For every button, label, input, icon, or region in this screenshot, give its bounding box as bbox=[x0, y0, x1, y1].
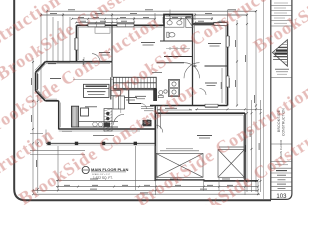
master bath shower bbox=[186, 17, 193, 28]
garage top wall bbox=[155, 112, 245, 114]
powder room fixtures bbox=[158, 90, 167, 98]
stair hall left wall bbox=[110, 77, 112, 99]
bedroom left wall bbox=[192, 24, 194, 106]
entry side walls bbox=[157, 107, 159, 129]
tiny dimension text dashes (bottom) bbox=[64, 179, 233, 193]
laundry walls bbox=[169, 80, 180, 97]
tiny dimension text dashes (top) bbox=[50, 10, 236, 21]
laundry appliances bbox=[170, 81, 179, 96]
logo: house gable pointing left bbox=[271, 40, 292, 78]
bay left wall bbox=[35, 72, 37, 91]
garage width dimension arrow bbox=[157, 108, 192, 110]
overhead door labels bbox=[160, 147, 244, 151]
garage left wall bbox=[154, 106, 156, 182]
top dimension line level 4 bbox=[76, 22, 134, 24]
kitchen label bbox=[85, 106, 97, 108]
left front vertical wall bbox=[58, 101, 60, 130]
revision row text marks bbox=[274, 3, 288, 23]
bath bottom wall bbox=[160, 40, 193, 42]
stairs label bbox=[152, 72, 162, 74]
upper right bedroom label bbox=[208, 43, 221, 45]
great room label bbox=[124, 97, 137, 99]
wic bottom wall bbox=[164, 56, 193, 58]
bay upper angled wall bbox=[36, 62, 46, 73]
top dimension line level 2 bbox=[41, 14, 170, 16]
svg-text:1,622 SQ. FT.: 1,622 SQ. FT. bbox=[93, 176, 113, 180]
wall inner parallel lines bbox=[37, 16, 243, 179]
logo caption lines bbox=[278, 47, 287, 49]
sheet info rotated text bbox=[279, 139, 283, 159]
bottom dimension lines bbox=[33, 180, 260, 194]
company name vertical text bbox=[277, 108, 285, 136]
window symbols (rect boxes on walls) bbox=[75, 23, 229, 107]
svg-text:CONSTRUCTION: CONSTRUCTION bbox=[281, 108, 285, 136]
porch label bbox=[93, 134, 114, 136]
bedroom2 label bbox=[99, 52, 110, 54]
bedroom2 closet bbox=[95, 27, 110, 33]
garage front wall left segment bbox=[155, 179, 205, 181]
bedroom2 left exterior wall bbox=[76, 25, 78, 61]
bedroom wall inner line bbox=[194, 24, 196, 66]
bedroom3 label bbox=[205, 82, 217, 84]
title block internals bbox=[271, 3, 292, 26]
master bath toilet bbox=[167, 32, 175, 37]
right extension lines bbox=[237, 11, 261, 192]
bay top window dark sill bbox=[57, 61, 70, 63]
lower title block cells bbox=[271, 144, 292, 191]
top extension lines bbox=[41, 10, 228, 100]
range dark box bbox=[143, 120, 152, 126]
drawing area right border bbox=[262, 0, 264, 199]
svg-text:MAIN FLOOR PLAN: MAIN FLOOR PLAN bbox=[91, 167, 128, 172]
pantry hatched bbox=[72, 106, 79, 127]
kitchen island hatched counter bbox=[104, 109, 112, 132]
bay lower angled wall bbox=[36, 91, 46, 101]
left extension lines bbox=[30, 58, 85, 193]
garage right wall bbox=[244, 113, 246, 181]
master bath vanity with two sinks bbox=[165, 19, 185, 28]
svg-text:MAIN FLOOR: MAIN FLOOR bbox=[279, 139, 283, 159]
rear wall of right wing bbox=[150, 105, 228, 107]
label box bbox=[84, 84, 110, 97]
garage front wall right segment bbox=[204, 180, 258, 182]
dimension tick marks bottom bbox=[32, 179, 259, 195]
wic closet rod bbox=[166, 48, 190, 50]
right exterior wall bbox=[227, 24, 229, 106]
rear (top) wall bbox=[77, 15, 228, 26]
front wall bbox=[59, 128, 156, 130]
bay bottom wall bbox=[45, 100, 58, 102]
tiny dimension text (sides, rotated) bbox=[32, 40, 260, 167]
revision table row lines bbox=[271, 5, 292, 7]
dimension tick marks top bbox=[40, 10, 257, 23]
top dimension line level 1 bbox=[47, 10, 256, 12]
bedroom2 right wall bbox=[111, 25, 113, 61]
small cell text marks bbox=[275, 165, 288, 189]
top dimension line level 3 bbox=[72, 18, 155, 20]
hall wall below wic bbox=[157, 62, 185, 64]
closet by stairs bbox=[111, 90, 125, 113]
svg-text:103: 103 bbox=[276, 194, 287, 200]
bay window double lines bbox=[37, 64, 56, 99]
mudroom bench lines bbox=[141, 107, 154, 111]
upper bedroom bottom wall bbox=[193, 65, 228, 67]
sheet left edge and bottom edge with rounded corner bbox=[14, 0, 271, 200]
nook label bbox=[50, 78, 61, 80]
room label text marks bbox=[50, 43, 221, 107]
powder room walls by stairs bbox=[129, 90, 147, 109]
garage door left X-panel bbox=[156, 154, 203, 178]
rear wall lower dim line bbox=[155, 68, 262, 195]
master bedroom label bbox=[141, 42, 155, 44]
great room interior dim line bbox=[73, 57, 113, 80]
master bath left wall bbox=[163, 15, 165, 42]
garage door right X-panel bbox=[218, 150, 245, 178]
title block outer border bbox=[271, 0, 292, 199]
fridge bbox=[81, 108, 89, 116]
garage label bbox=[197, 136, 212, 139]
counter bbox=[79, 121, 118, 123]
bay top wall bbox=[45, 61, 112, 63]
dimension tick marks sides bbox=[32, 10, 262, 190]
chase wall dark by stairs bbox=[153, 89, 157, 102]
